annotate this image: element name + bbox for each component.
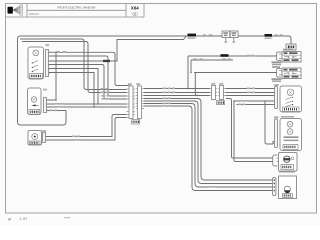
svg-text:Ø: Ø — [8, 217, 11, 222]
svg-text:FRONT ELECTRIC WINDOW: FRONT ELECTRIC WINDOW — [58, 5, 96, 9]
svg-text:4064.01: 4064.01 — [29, 12, 39, 16]
svg-text:X64: X64 — [131, 6, 139, 11]
svg-text:1-97: 1-97 — [20, 217, 28, 221]
